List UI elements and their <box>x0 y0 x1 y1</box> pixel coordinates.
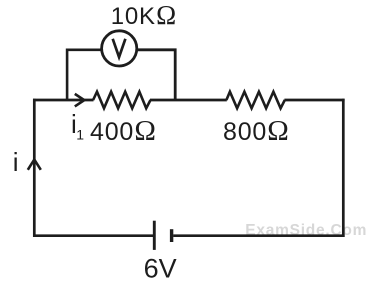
wire: top side middle segment <box>150 99 227 102</box>
arrow i1 current (on top wire, pointing right) <box>75 94 85 107</box>
battery 6V short plate <box>170 229 173 242</box>
wire: top side left segment <box>33 99 94 102</box>
wire: bottom left segment (corner to battery) <box>33 234 153 237</box>
voltmeter V letter <box>113 39 126 57</box>
svg-text:400: 400 <box>90 118 134 146</box>
wire: voltmeter branch right (circle to junction) <box>136 50 175 100</box>
resistor 800ohm <box>226 92 284 109</box>
svg-text:6V: 6V <box>144 254 177 281</box>
svg-text:1: 1 <box>76 127 84 143</box>
arrow i current (on left wire, pointing up) <box>28 160 41 170</box>
wire: main loop left side <box>33 99 36 237</box>
svg-text:Ω: Ω <box>134 115 156 147</box>
svg-text:i: i <box>13 147 19 177</box>
voltmeter circle <box>102 31 137 66</box>
svg-text:10K: 10K <box>111 3 156 30</box>
svg-text:800: 800 <box>223 118 267 146</box>
svg-text:Ω: Ω <box>267 115 289 147</box>
wire: top side right segment <box>284 99 344 102</box>
wire: main loop right side <box>342 99 345 237</box>
wire: voltmeter branch left (junction up and right) <box>67 50 102 100</box>
svg-text:Ω: Ω <box>156 0 176 30</box>
wire: bottom right segment (battery to corner) <box>173 234 344 237</box>
resistor 400ohm <box>93 92 150 109</box>
battery 6V long plate <box>153 221 156 250</box>
